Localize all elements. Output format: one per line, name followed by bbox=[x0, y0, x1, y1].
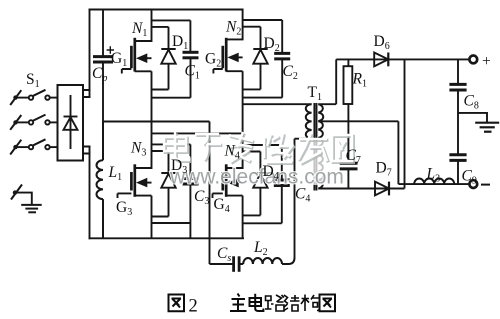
wire top bus bbox=[90, 9, 243, 11]
capacitor C4 bbox=[243, 145, 290, 223]
svg-text:Cs: Cs bbox=[217, 245, 231, 264]
wire tank vertical bbox=[209, 122, 211, 265]
svg-text:C7: C7 bbox=[346, 147, 361, 166]
capacitor Cp bbox=[93, 10, 114, 122]
label G3 bbox=[116, 199, 132, 218]
watermark url text bbox=[169, 166, 344, 189]
resistor R1 bbox=[344, 59, 353, 121]
caption 主 bbox=[230, 294, 247, 312]
svg-text:D1: D1 bbox=[172, 33, 188, 52]
label N1 bbox=[131, 20, 147, 39]
bridge rectifier box bbox=[58, 85, 84, 161]
diode D6 bbox=[374, 53, 388, 67]
svg-text:S1: S1 bbox=[26, 71, 40, 90]
wire left bus lower segment bbox=[89, 147, 91, 239]
svg-text:G1: G1 bbox=[111, 50, 127, 69]
label D3 bbox=[171, 157, 187, 176]
svg-text:+: + bbox=[482, 53, 491, 70]
wire secondary top lead bbox=[318, 59, 336, 104]
switch S1 label bbox=[26, 71, 40, 90]
label G1 bbox=[111, 50, 127, 69]
MOSFET N3 bbox=[118, 133, 152, 238]
label R1 bbox=[352, 71, 367, 90]
switch S1 pole 1 bbox=[10, 90, 57, 105]
label Cs bbox=[217, 245, 231, 264]
wire tap down vertical bbox=[397, 121, 399, 184]
wire primary top tap bbox=[243, 103, 312, 105]
capacitor C8 bbox=[449, 59, 466, 154]
capacitor Cs bbox=[210, 256, 240, 272]
label N2 bbox=[225, 19, 241, 38]
label C7 bbox=[346, 147, 361, 166]
caption 电 bbox=[250, 294, 264, 311]
label D7 bbox=[376, 160, 392, 179]
caption 图 (1st) bbox=[169, 295, 185, 312]
diode D4 bbox=[243, 152, 268, 216]
capacitor C1 bbox=[152, 20, 199, 97]
label Cp bbox=[92, 65, 107, 84]
label D4 bbox=[263, 163, 279, 182]
label N3 bbox=[130, 140, 146, 159]
wire left bus upper segment bbox=[89, 10, 91, 98]
diode D7 bbox=[375, 182, 389, 196]
switch S1 pole 2 bbox=[10, 115, 57, 130]
svg-text:G4: G4 bbox=[214, 196, 230, 215]
label T1 bbox=[308, 84, 322, 103]
grounded disconnect switch bbox=[11, 185, 32, 205]
watermark CJK glyphs row bbox=[165, 133, 353, 164]
svg-text:Cp: Cp bbox=[92, 65, 107, 84]
diode D2 bbox=[243, 27, 268, 90]
wire rectifier bottom tab bbox=[83, 147, 90, 154]
label plus bbox=[482, 53, 491, 70]
caption 2 bbox=[189, 297, 198, 317]
diode D1 bbox=[152, 27, 176, 90]
wire primary return bbox=[295, 139, 312, 258]
wire secondary tap rail bbox=[319, 120, 399, 122]
svg-text:T1: T1 bbox=[308, 84, 322, 103]
diode D3 bbox=[152, 151, 176, 217]
svg-text:G2: G2 bbox=[205, 51, 221, 70]
transformer T1 primary winding bbox=[306, 104, 312, 138]
svg-text:G3: G3 bbox=[116, 199, 132, 218]
watermark erase patch over transformer bbox=[299, 141, 339, 185]
transformer T1 secondary winding bbox=[318, 104, 323, 188]
svg-text:C3: C3 bbox=[194, 188, 209, 207]
switch S1 pole 3 bbox=[10, 139, 57, 154]
label C2 bbox=[283, 63, 298, 82]
svg-text:D6: D6 bbox=[374, 33, 390, 52]
capacitor C7 bbox=[340, 121, 358, 188]
svg-text:L2: L2 bbox=[253, 239, 268, 258]
wire output minus bbox=[398, 183, 469, 185]
svg-text:2: 2 bbox=[189, 297, 198, 317]
inductor L1 bbox=[96, 122, 103, 239]
ground symbol left bbox=[21, 205, 42, 212]
output terminal minus bbox=[469, 180, 477, 188]
wire leg1 branch bbox=[152, 19, 191, 21]
MOSFET N2 bbox=[213, 10, 242, 134]
label G4 bbox=[214, 196, 230, 215]
svg-text:D2: D2 bbox=[264, 35, 280, 54]
wire secondary bottom rail bbox=[318, 188, 404, 190]
label C8 bbox=[464, 93, 479, 112]
svg-text:D7: D7 bbox=[376, 160, 392, 179]
svg-text:C2: C2 bbox=[283, 63, 298, 82]
capacitor C9 bbox=[449, 155, 466, 184]
label L1 bbox=[108, 164, 123, 183]
label C1 bbox=[185, 63, 200, 82]
capacitor C3 bbox=[152, 144, 199, 238]
wire cathode tie vertical bbox=[404, 59, 406, 188]
wire lower box rail bbox=[152, 132, 243, 134]
label C4 bbox=[295, 186, 310, 205]
capacitor C2 bbox=[243, 20, 291, 98]
output terminal plus bbox=[469, 56, 477, 64]
svg-text:www.elecfans.com: www.elecfans.com bbox=[169, 166, 344, 189]
MOSFET N1 bbox=[122, 10, 152, 134]
svg-text:N3: N3 bbox=[130, 140, 146, 159]
wire rectified top bbox=[336, 58, 469, 60]
wire rectifier top tab bbox=[83, 90, 90, 97]
label minus bbox=[481, 184, 490, 186]
transformer T1 core bbox=[314, 103, 316, 191]
label D1 bbox=[172, 33, 188, 52]
bridge rectifier diode bbox=[64, 95, 78, 149]
svg-text:N2: N2 bbox=[225, 19, 241, 38]
label D2 bbox=[264, 35, 280, 54]
MOSFET N4 bbox=[213, 133, 243, 238]
wire leg3 branch bbox=[152, 143, 191, 145]
ground symbol right bbox=[458, 113, 499, 132]
caption 图 (2nd) bbox=[320, 295, 336, 312]
svg-text:R1: R1 bbox=[352, 71, 367, 90]
svg-text:C8: C8 bbox=[464, 93, 479, 112]
label C3 bbox=[194, 188, 209, 207]
inductor L2 bbox=[239, 258, 294, 265]
label D6 bbox=[374, 33, 390, 52]
caption 路 bbox=[265, 295, 284, 311]
label L3 bbox=[426, 166, 441, 185]
wire mid rail bbox=[103, 121, 210, 123]
caption 结 bbox=[283, 295, 300, 311]
svg-text:L3: L3 bbox=[426, 166, 441, 185]
svg-text:N1: N1 bbox=[131, 20, 147, 39]
label L2 bbox=[253, 239, 268, 258]
svg-text:L1: L1 bbox=[108, 164, 123, 183]
wire bottom bus bbox=[90, 237, 244, 239]
label N4 bbox=[224, 143, 240, 162]
caption 构 bbox=[301, 295, 320, 312]
label C9 bbox=[462, 168, 477, 187]
label G2 bbox=[205, 51, 221, 70]
inductor L3 bbox=[414, 179, 454, 185]
svg-text:C1: C1 bbox=[185, 63, 200, 82]
svg-text:C9: C9 bbox=[462, 168, 477, 187]
